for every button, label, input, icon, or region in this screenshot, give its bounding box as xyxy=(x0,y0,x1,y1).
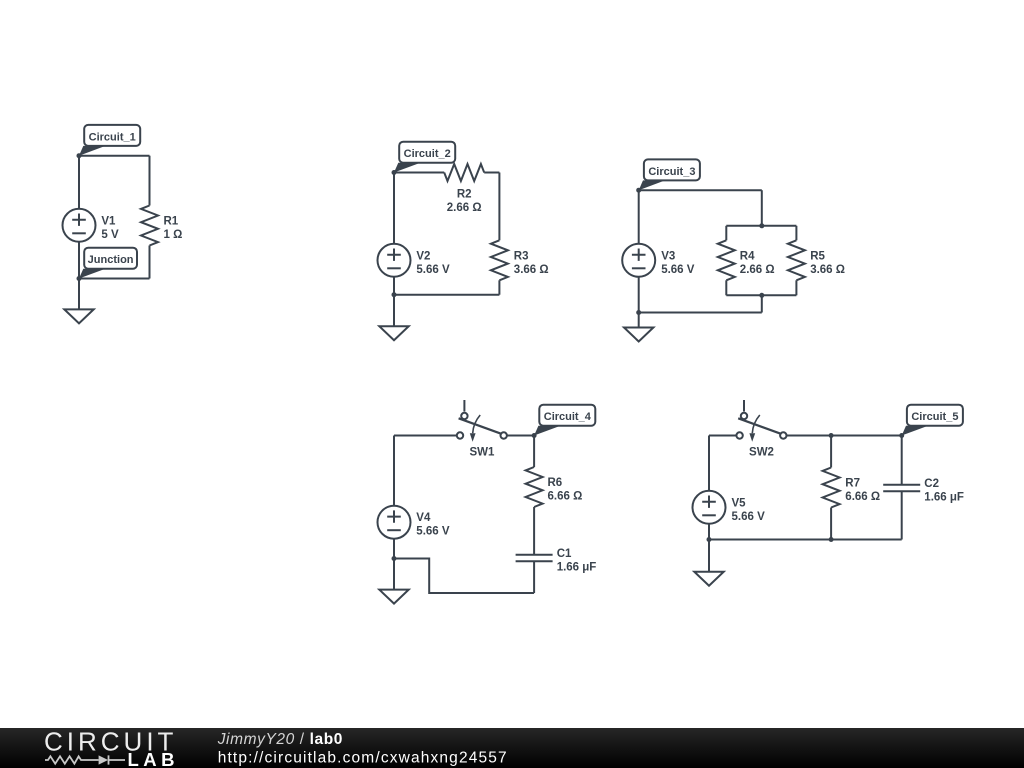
svg-text:R4: R4 xyxy=(740,250,755,262)
resistor R1 xyxy=(141,156,182,279)
svg-text:Circuit_1: Circuit_1 xyxy=(89,131,136,143)
resistor R5 xyxy=(788,226,845,295)
wire left-bottom C3 xyxy=(638,277,640,313)
voltage source V4 xyxy=(378,506,450,539)
svg-text:3.66 Ω: 3.66 Ω xyxy=(514,264,549,276)
wire parallel top bar C3 xyxy=(726,225,796,227)
svg-text:V1: V1 xyxy=(101,215,116,227)
capacitor C2 xyxy=(883,436,964,540)
svg-text:1.66 μF: 1.66 μF xyxy=(924,492,964,504)
label Junction xyxy=(79,248,137,279)
node dot C4 top xyxy=(532,433,537,438)
node dot C5 R7 bottom xyxy=(829,537,834,542)
resistor R2 xyxy=(444,164,484,214)
resistor R3 xyxy=(491,240,549,294)
svg-text:SW1: SW1 xyxy=(469,447,495,459)
svg-text:2.66 Ω: 2.66 Ω xyxy=(447,202,482,214)
svg-text:Circuit_2: Circuit_2 xyxy=(404,148,451,160)
svg-text:R5: R5 xyxy=(810,250,825,262)
wire bottom drop C3 xyxy=(761,295,763,312)
svg-text:V2: V2 xyxy=(416,250,430,262)
node dot C5 R7 top xyxy=(829,433,834,438)
ground C3 xyxy=(624,313,653,342)
svg-text:6.66 Ω: 6.66 Ω xyxy=(548,491,583,503)
node dot C1 bottom xyxy=(77,276,82,281)
node dot C4 bottom xyxy=(392,556,397,561)
node dot C3 top xyxy=(636,188,641,193)
svg-text:Junction: Junction xyxy=(88,254,134,266)
switch SW2 xyxy=(736,400,786,459)
wire bottom C2 xyxy=(394,294,499,296)
ground C2 xyxy=(379,295,408,341)
node dot C5 label xyxy=(899,433,904,438)
svg-text:Circuit_3: Circuit_3 xyxy=(648,166,695,178)
resistor R7 xyxy=(823,436,881,540)
wire parallel bottom bar C3 xyxy=(726,294,796,296)
svg-text:3.66 Ω: 3.66 Ω xyxy=(810,264,845,276)
svg-text:1 Ω: 1 Ω xyxy=(164,229,183,241)
svg-text:R3: R3 xyxy=(514,250,529,262)
svg-text:R6: R6 xyxy=(548,477,563,489)
wire V4 bottom C4 xyxy=(393,539,395,559)
wire left-top C1 xyxy=(78,156,80,209)
svg-text:5.66 V: 5.66 V xyxy=(732,511,766,523)
wire bottom C5 xyxy=(709,539,902,541)
svg-text:SW2: SW2 xyxy=(749,447,774,459)
wire top-left C4 xyxy=(394,435,457,437)
wire V5 bottom C5 xyxy=(708,524,710,540)
svg-text:http://circuitlab.com/cxwahxng: http://circuitlab.com/cxwahxng24557 xyxy=(218,749,508,766)
ground C1 xyxy=(64,279,93,324)
wire switch-to-node C4 xyxy=(507,435,534,437)
wire right-top C2 xyxy=(498,173,500,241)
svg-text:Circuit_4: Circuit_4 xyxy=(544,411,592,423)
wire top-left C2 xyxy=(394,172,444,174)
svg-text:6.66 Ω: 6.66 Ω xyxy=(845,491,880,503)
svg-text:V4: V4 xyxy=(416,512,431,524)
wire top-left C5 xyxy=(709,435,736,437)
wire bottom C3 xyxy=(639,312,762,314)
svg-text:5 V: 5 V xyxy=(101,229,119,241)
svg-text:5.66 V: 5.66 V xyxy=(661,264,695,276)
node dot C1 top xyxy=(77,153,82,158)
voltage source V1 xyxy=(63,209,119,242)
node dot C5 bottom-left xyxy=(707,537,712,542)
svg-text:LAB: LAB xyxy=(128,749,180,768)
svg-text:C2: C2 xyxy=(924,478,939,490)
label Circuit_3 xyxy=(639,159,700,190)
ground C4 xyxy=(379,559,408,604)
wire switch-to-right C5 xyxy=(787,435,902,437)
label Circuit_5 xyxy=(902,405,963,436)
svg-text:2.66 Ω: 2.66 Ω xyxy=(740,264,775,276)
svg-text:R1: R1 xyxy=(164,216,179,228)
switch SW1 xyxy=(457,400,507,459)
capacitor C1 xyxy=(516,548,597,593)
svg-text:C1: C1 xyxy=(557,548,572,560)
svg-text:5.66 V: 5.66 V xyxy=(416,526,450,538)
wire top C3 xyxy=(639,189,762,191)
wire left-top C2 xyxy=(393,173,395,244)
wire left-bottom C1 xyxy=(78,242,80,279)
svg-text:Circuit_5: Circuit_5 xyxy=(911,411,958,423)
wire left-bottom C2 xyxy=(393,277,395,295)
voltage source V5 xyxy=(693,491,766,524)
voltage source V2 xyxy=(378,244,450,277)
wire left-top C3 xyxy=(638,190,640,244)
svg-text:R2: R2 xyxy=(457,188,472,200)
svg-text:1.66 μF: 1.66 μF xyxy=(557,562,597,574)
svg-text:R7: R7 xyxy=(845,478,860,490)
wire bottom C1 xyxy=(79,278,150,280)
wire top C1 xyxy=(79,155,150,157)
label Circuit_1 xyxy=(79,125,140,156)
node dot C3 par-bottom xyxy=(759,293,764,298)
ground C5 xyxy=(694,540,723,586)
node dot C2 top xyxy=(392,170,397,175)
node dot C3 par-top xyxy=(759,223,764,228)
node dot C3 bottom xyxy=(636,310,641,315)
svg-text:V3: V3 xyxy=(661,250,675,262)
wire left rail C5 xyxy=(708,436,710,491)
svg-text:5.66 V: 5.66 V xyxy=(416,264,450,276)
wire top-right C2 xyxy=(484,172,499,174)
wire right drop C3 xyxy=(761,190,763,226)
svg-text:V5: V5 xyxy=(732,497,747,509)
voltage source V3 xyxy=(622,244,695,277)
node dot C2 bottom xyxy=(392,292,397,297)
label Circuit_2 xyxy=(394,142,455,173)
svg-text:JimmyY20 / lab0: JimmyY20 / lab0 xyxy=(217,731,343,748)
resistor R4 xyxy=(718,226,775,295)
label Circuit_4 xyxy=(534,405,595,436)
resistor R6 xyxy=(526,436,583,555)
wire bottom jog C4 xyxy=(394,559,534,594)
CircuitLab logo resistor-diode glyph xyxy=(45,756,99,763)
wire left rail C4 xyxy=(393,436,395,506)
